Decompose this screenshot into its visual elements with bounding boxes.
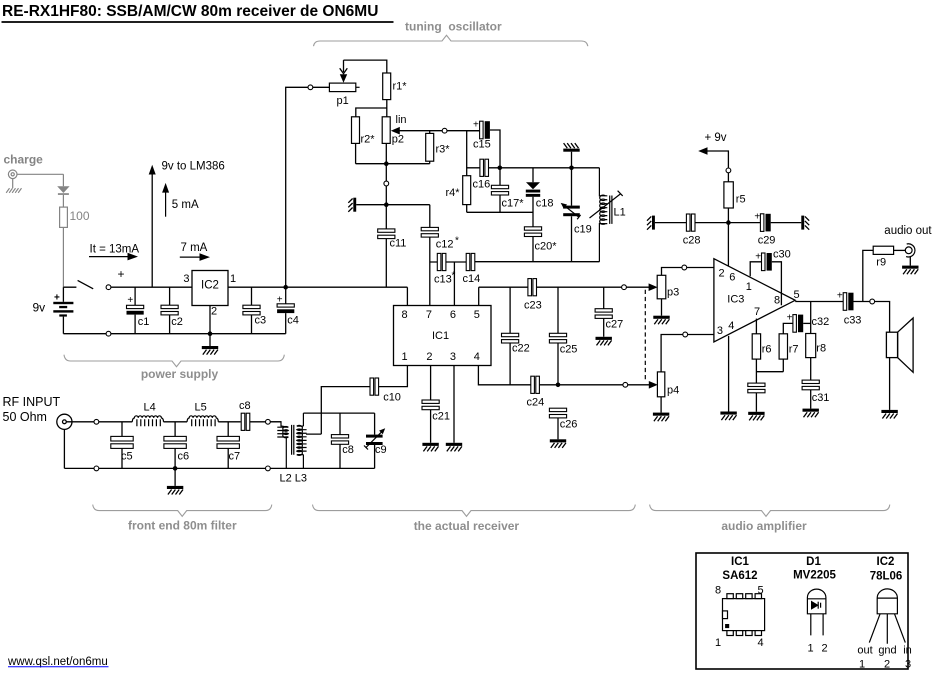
svg-text:c23: c23 [524, 300, 542, 312]
svg-text:IC3: IC3 [727, 294, 744, 306]
node (pin2 wire) [682, 265, 687, 270]
capacitor c8 (filter series) [241, 413, 250, 430]
junction dot (filter ground) [173, 466, 178, 471]
svg-text:c14: c14 [463, 273, 481, 285]
capacitor c15 [480, 121, 490, 139]
svg-text:r8: r8 [816, 343, 826, 355]
capacitor c5 [111, 436, 133, 448]
node (p1 left wire) [308, 85, 313, 90]
capacitor c11 [378, 229, 395, 239]
wire to c28 [655, 222, 687, 224]
wire r2/p2/r3 bottom junction [356, 143, 430, 163]
wire output to r8 [810, 302, 812, 334]
svg-text:1: 1 [230, 273, 236, 285]
charge connector J2 [8, 170, 17, 179]
wire p2 wiper line [399, 130, 480, 132]
inductor L1 [590, 168, 623, 262]
svg-text:2: 2 [821, 643, 827, 655]
svg-text:+: + [54, 293, 60, 304]
capacitor c10 [370, 378, 379, 395]
IC1 mixer box [394, 306, 492, 366]
svg-text:c13: c13 [434, 274, 452, 286]
ground (charge connector) [6, 188, 21, 193]
svg-text:9v to LM386: 9v to LM386 [162, 161, 225, 173]
svg-text:IC1: IC1 [731, 556, 750, 568]
p3 ground [653, 299, 669, 325]
c14 right wire to tank bottom line [475, 261, 600, 263]
svg-text:IC1: IC1 [432, 330, 449, 342]
svg-text:c22: c22 [512, 343, 530, 355]
svg-text:100: 100 [70, 209, 90, 223]
wire battery bottom stem [62, 317, 64, 334]
c5 stems [121, 422, 123, 469]
c18 stems [532, 168, 534, 227]
ground (above tank, inverted) [563, 143, 579, 168]
svg-text:+: + [277, 295, 283, 306]
wire 9v to LM386 feed [151, 172, 153, 287]
c27 stem and ground [596, 287, 612, 345]
svg-text:L4: L4 [144, 402, 156, 414]
svg-text:2: 2 [426, 351, 432, 363]
wire junction to c29 [728, 222, 760, 224]
c9 stems [374, 413, 376, 468]
svg-text:5: 5 [794, 289, 800, 301]
svg-text:c8: c8 [239, 400, 251, 412]
svg-text:c26: c26 [560, 419, 578, 431]
svg-text:r2*: r2* [361, 134, 376, 146]
wire audio out branch [863, 250, 873, 301]
node (filter out top) [266, 419, 271, 424]
capacitor c26 [549, 408, 566, 418]
potentiometer p3 [657, 275, 666, 299]
osc tank top rail [500, 167, 600, 169]
bypass cap ground [748, 393, 764, 421]
svg-text:p1: p1 [337, 95, 349, 107]
IC1 pin5 top stem [478, 287, 480, 305]
svg-text:50 Ohm: 50 Ohm [3, 410, 47, 424]
svg-text:4: 4 [474, 351, 480, 363]
svg-text:3: 3 [450, 351, 456, 363]
wire bottom ground rail [63, 333, 285, 335]
svg-text:3: 3 [183, 273, 189, 285]
diode D2 (charge, gray) [57, 186, 69, 195]
jack ground [902, 257, 918, 274]
svg-text:c28: c28 [683, 235, 701, 247]
node (agc line) [623, 382, 628, 387]
svg-text:1: 1 [715, 637, 721, 649]
svg-text:c9: c9 [375, 444, 387, 456]
D1 package [807, 589, 826, 635]
78L06 TO-92 package [869, 589, 905, 644]
junction dot (tank rail) [569, 166, 574, 171]
svg-text:8: 8 [401, 309, 407, 321]
svg-text:+: + [787, 313, 793, 324]
svg-text:1: 1 [746, 281, 752, 293]
variable capacitor c9 [364, 428, 385, 449]
c1 stems [134, 287, 136, 334]
junction dot (c25/c26) [556, 383, 561, 388]
wire battery top stem [62, 287, 64, 302]
c16 wires [467, 131, 500, 176]
c26 ground [550, 418, 566, 448]
speaker ground [881, 358, 897, 419]
ground (power supply) [202, 334, 218, 355]
underbrace front end 80m filter [93, 505, 272, 517]
speaker LS1 [886, 318, 913, 372]
svg-text:c19: c19 [574, 224, 592, 236]
c8 tank stems [339, 413, 341, 468]
svg-text:c12: c12 [436, 239, 454, 251]
svg-text:8: 8 [715, 585, 721, 597]
node (divider wire) [384, 181, 389, 186]
resistor r8 [806, 334, 816, 358]
resistor r1* [383, 73, 391, 100]
node (rf bottom left) [94, 466, 99, 471]
svg-text:7: 7 [754, 306, 760, 318]
svg-text:c8: c8 [342, 444, 354, 456]
svg-text:c6: c6 [178, 451, 190, 463]
svg-text:c30: c30 [773, 249, 791, 261]
r6/r7 bottom junction wire [756, 359, 783, 383]
capacitor c8 (tank) [331, 435, 348, 445]
svg-text:c16: c16 [473, 179, 491, 191]
resistor 100 (charge) [60, 207, 68, 227]
svg-text:gnd: gnd [878, 645, 896, 657]
wire L5 to c8 [218, 421, 240, 423]
potentiometer p1 [329, 83, 355, 92]
capacitor c6 [164, 436, 186, 448]
wire c10 left to transformer tap [306, 387, 370, 435]
svg-text:+: + [127, 295, 133, 306]
capacitor c4 [277, 304, 294, 313]
svg-text:c21: c21 [432, 411, 450, 423]
wire c33 to speaker [854, 302, 890, 333]
wall ground (c29 right) [801, 216, 809, 230]
c3 stems [251, 287, 253, 334]
svg-text:c2: c2 [171, 316, 183, 328]
capacitor c14 [466, 253, 475, 270]
underbrace the actual receiver [313, 505, 636, 517]
svg-text:power supply: power supply [141, 367, 219, 381]
arrow It [89, 253, 138, 261]
svg-text:8: 8 [774, 295, 780, 307]
node (pin3 wire) [683, 332, 688, 337]
RF bottom line [64, 467, 374, 469]
svg-text:5: 5 [474, 309, 480, 321]
svg-text:+: + [837, 291, 843, 302]
wire r9 to jack [894, 249, 906, 251]
r4 bottom stem [466, 205, 468, 213]
IC2 regulator box [192, 271, 228, 306]
svg-text:1: 1 [807, 643, 813, 655]
capacitor c27 [595, 309, 612, 319]
svg-text:charge: charge [4, 153, 44, 167]
arrow 5 mA [162, 183, 169, 217]
svg-text:c3: c3 [255, 315, 267, 327]
parts box [696, 553, 908, 669]
svg-text:RE-RX1HF80: SSB/AM/CW 80m rece: RE-RX1HF80: SSB/AM/CW 80m receiver de ON… [2, 3, 378, 20]
wire r5 junction down to IC3 pin6 [727, 223, 729, 267]
c15 wires [467, 130, 500, 168]
DIP-8 package [723, 594, 765, 636]
wire +9v top rail [111, 287, 408, 305]
node (receiver out) [622, 285, 627, 290]
capacitor c33 [843, 293, 853, 311]
wall ground (c28 left) [647, 216, 655, 230]
svg-text:in: in [903, 645, 912, 657]
underbrace audio amplifier [650, 505, 890, 517]
r3 top stem [429, 131, 431, 134]
svg-text:IC2: IC2 [201, 280, 219, 292]
c32 right wire [803, 322, 811, 324]
svg-text:3: 3 [905, 659, 911, 671]
p2 wiper arrow [391, 127, 400, 135]
c17 stems [499, 168, 501, 213]
capacitor c1 [127, 305, 144, 314]
arrow into p4 [649, 381, 658, 389]
battery 9v [53, 302, 73, 317]
p1 right stub [356, 86, 360, 88]
IC3 pin7 stem [755, 319, 757, 334]
svg-text:5 mA: 5 mA [172, 199, 199, 211]
resistor r4* [463, 176, 471, 205]
potentiometer p2 [382, 117, 390, 144]
c20 bottom stem [532, 237, 534, 262]
potentiometer p4 [657, 372, 664, 397]
audio out jack [905, 244, 915, 257]
op-amp IC3 triangle [714, 259, 795, 342]
capacitor c31 [802, 380, 819, 390]
wire c28 to r5 junction [695, 222, 728, 224]
wire resistor to battery node [62, 227, 64, 287]
svg-text:out: out [857, 645, 872, 657]
node (rf bottom right) [266, 466, 271, 471]
resistor r9 [873, 246, 893, 254]
svg-text:c15: c15 [473, 139, 491, 151]
capacitor c13* [437, 253, 446, 270]
svg-text:c24: c24 [527, 397, 545, 409]
IC2 pin2 stem [209, 306, 211, 334]
svg-text:c10: c10 [383, 392, 401, 404]
dashed agc line [644, 290, 646, 382]
svg-text:r9: r9 [876, 257, 886, 269]
svg-text:r4*: r4* [446, 187, 461, 199]
c19 stems [571, 168, 573, 262]
resistor r7 [779, 334, 787, 359]
node (wiper line) [442, 128, 447, 133]
svg-text:+: + [473, 120, 479, 131]
capacitor c22 [502, 333, 519, 343]
svg-text:2: 2 [211, 306, 217, 318]
link underline [8, 666, 109, 668]
overbrace tuning oscillator [314, 35, 588, 46]
underbrace power supply [64, 355, 284, 367]
svg-text:L1: L1 [614, 207, 626, 219]
capacitor c24 [531, 376, 540, 393]
ground (front end filter) [167, 468, 183, 494]
IC3 pin4 ground [720, 336, 736, 420]
svg-text:c33: c33 [844, 315, 862, 327]
wire pin1 to c10 [379, 366, 408, 387]
inductor L4 [132, 416, 163, 427]
wire c24 right to p4 [539, 384, 650, 386]
c4 stems [285, 287, 287, 334]
osc ground line [356, 204, 430, 206]
capacitor c25 [549, 333, 566, 343]
svg-text:RF INPUT: RF INPUT [3, 395, 61, 409]
p1 wiper arrow [340, 60, 348, 83]
variable capacitor c19 [561, 203, 581, 219]
osc lower link line [467, 211, 533, 213]
svg-text:2: 2 [884, 659, 890, 671]
svg-text:2: 2 [719, 268, 725, 280]
svg-text:SA612: SA612 [722, 570, 757, 582]
svg-text:c32: c32 [812, 316, 830, 328]
svg-text:c27: c27 [606, 319, 624, 331]
svg-text:5: 5 [757, 585, 763, 597]
r5 bottom stem [727, 208, 729, 223]
capacitor c20* [524, 227, 541, 237]
node (audio out tap) [870, 299, 875, 304]
svg-text:7: 7 [426, 309, 432, 321]
switch S1 [63, 280, 93, 288]
r5 top stem [727, 173, 729, 182]
capacitor c3 [243, 305, 260, 315]
+9v arrow feed [698, 147, 728, 168]
c22 stems [509, 287, 511, 385]
p4 top wire to IC3 pin3 [661, 335, 714, 372]
r8 bottom stem [810, 358, 812, 381]
svg-text:L5: L5 [195, 402, 207, 414]
arrow 7mA [180, 253, 210, 261]
svg-text:IC2: IC2 [877, 556, 895, 568]
c21 ground [422, 410, 438, 452]
arrow into p3 [649, 283, 658, 291]
wire r1 bottom tee [356, 100, 387, 117]
svg-text:r1*: r1* [393, 81, 408, 93]
c12 stems [429, 205, 431, 306]
junction dot (decoupling) [726, 220, 731, 225]
wire c8 to transformer [250, 421, 282, 423]
c25 stems [557, 287, 559, 385]
svg-text:L2 L3: L2 L3 [280, 473, 308, 485]
svg-text:c31: c31 [812, 392, 830, 404]
svg-text:It = 13mA: It = 13mA [90, 244, 140, 256]
svg-text:c25: c25 [560, 344, 578, 356]
svg-text:tuning oscillator: tuning oscillator [405, 20, 502, 34]
capacitor c21 [422, 400, 439, 410]
capacitor c30 [762, 253, 772, 271]
wire oscillator feed (p1 left to +9v junction) [286, 87, 330, 287]
IC1 pin3 ground [446, 366, 462, 452]
wire pin5/output line [479, 286, 528, 288]
c2 stems [169, 287, 171, 334]
c30 wires pin1 to pin8 [750, 262, 781, 305]
svg-text:c7: c7 [229, 451, 241, 463]
junction dot (osc ground line) [384, 202, 389, 207]
capacitor c29 [760, 214, 770, 232]
node (switch output) [106, 285, 111, 290]
svg-text:+: + [118, 267, 125, 281]
varicap c18 [526, 182, 540, 196]
svg-text:p3: p3 [667, 287, 679, 299]
wall ground (osc) [348, 198, 356, 212]
transformer L2 L3 [270, 413, 306, 468]
resistor r2* [352, 117, 360, 144]
wire divider to ground line [385, 164, 387, 229]
c6 stems [174, 422, 176, 469]
svg-text:+ 9v: + 9v [705, 132, 727, 144]
wire c29 to wall ground [771, 222, 802, 224]
node (r5 top) [726, 168, 731, 173]
wire charge connector to diode [13, 174, 64, 188]
p3 top wire to IC3 pin2 [662, 268, 714, 276]
capacitor c2 [161, 305, 178, 315]
svg-text:audio out: audio out [884, 225, 932, 237]
r7 top wire to c32 [783, 323, 793, 333]
svg-text:c17*: c17* [502, 198, 525, 210]
c13 wires [430, 262, 466, 306]
svg-text:the actual receiver: the actual receiver [414, 519, 520, 533]
svg-text:9v: 9v [33, 301, 46, 315]
node (rf top) [94, 419, 99, 424]
capacitor c28 [686, 214, 695, 231]
svg-text:p2: p2 [392, 134, 404, 146]
wire diode to resistor [62, 195, 64, 207]
svg-text:1: 1 [401, 351, 407, 363]
capacitor c7 [217, 436, 239, 448]
svg-text:1: 1 [859, 659, 865, 671]
capacitor c23 [528, 279, 537, 296]
svg-text:6: 6 [729, 272, 735, 284]
svg-text:r6: r6 [762, 344, 772, 356]
wire L4-L5 [164, 421, 188, 423]
junction dot (c16 right) [498, 166, 503, 171]
p4 ground [653, 397, 669, 421]
svg-text:7 mA: 7 mA [181, 242, 208, 254]
junction node A (rail / osc feed / c4) [283, 285, 288, 290]
c31 ground [803, 390, 819, 417]
svg-text:audio amplifier: audio amplifier [721, 519, 807, 533]
capacitor c32 [793, 315, 803, 333]
svg-text:4: 4 [728, 320, 734, 332]
junction (IC2 ground) [208, 331, 213, 336]
capacitor c12* [421, 227, 438, 237]
wire p1 wiper to r1 top [344, 60, 387, 73]
svg-text:*: * [455, 236, 459, 247]
svg-text:c18: c18 [536, 198, 554, 210]
svg-text:r7: r7 [789, 344, 799, 356]
svg-text:MV2205: MV2205 [793, 570, 836, 582]
svg-text:r5: r5 [736, 194, 746, 206]
svg-text:c20*: c20* [535, 241, 558, 253]
svg-text:c11: c11 [390, 238, 407, 250]
svg-text:D1: D1 [806, 556, 821, 568]
c11 bottom stem [385, 239, 387, 288]
svg-text:c1: c1 [138, 316, 150, 328]
svg-text:6: 6 [450, 309, 456, 321]
wire IC3 output [795, 301, 843, 303]
arrowhead 9v feed [149, 165, 156, 175]
svg-text:78L06: 78L06 [870, 571, 903, 583]
svg-text:c4: c4 [287, 315, 299, 327]
resistor r5 [724, 182, 733, 208]
capacitor c17* [491, 185, 508, 195]
junction dot (osc divider) [384, 161, 389, 166]
svg-text:+: + [755, 252, 761, 263]
c7 stems [227, 422, 229, 469]
RF input connector J1 [57, 414, 72, 429]
